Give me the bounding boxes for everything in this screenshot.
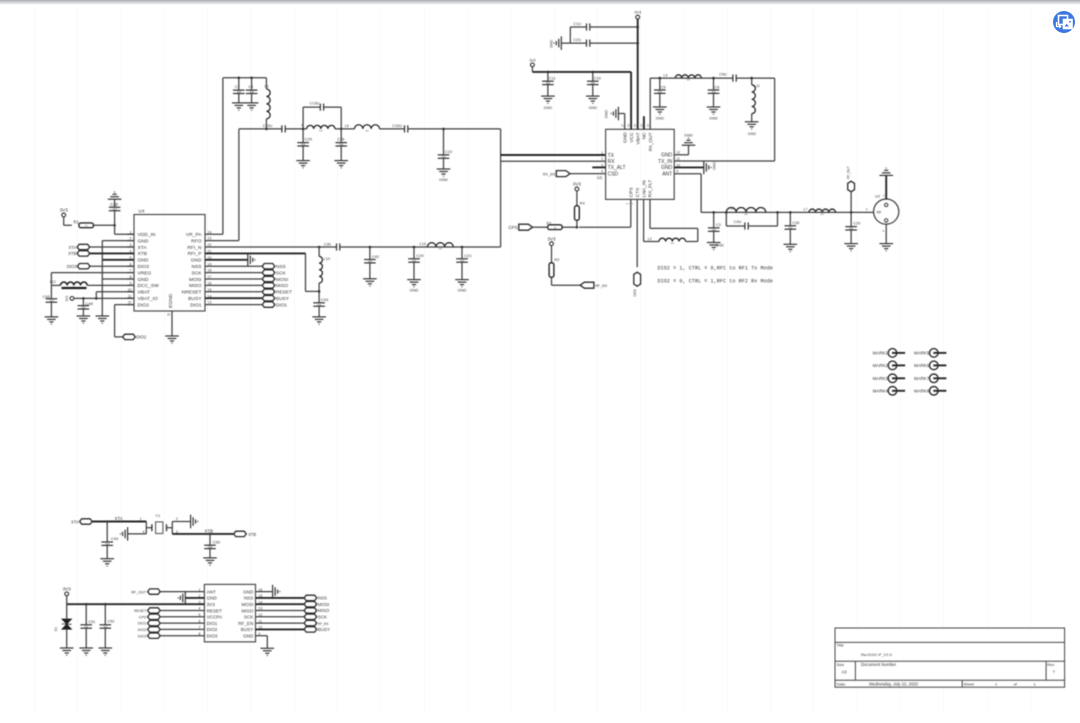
svg-text:MISO: MISO — [242, 608, 254, 613]
wire U1 RX_FLT loop to L2 — [649, 199, 651, 228]
svg-text:3v3: 3v3 — [529, 59, 535, 63]
svg-text:3V3: 3V3 — [65, 295, 69, 301]
svg-text:GND: GND — [243, 589, 254, 594]
svg-text:GND: GND — [550, 40, 554, 48]
svg-text:DIO3: DIO3 — [207, 634, 218, 639]
ground below C46 — [77, 316, 91, 323]
svg-text:C3: C3 — [716, 223, 721, 227]
svg-text:DIO2: DIO2 — [136, 335, 147, 340]
svg-text:RFI_P: RFI_P — [188, 251, 202, 257]
wire U4 pin 19 to port NSS — [205, 265, 262, 267]
fiducial MARK6 — [930, 361, 939, 370]
inductor L5 — [307, 125, 335, 129]
capacitor C1U — [570, 26, 586, 28]
svg-text:VCCPA: VCCPA — [207, 615, 223, 620]
wire U1 CPS pin down — [630, 199, 632, 227]
svg-text:MISO: MISO — [189, 283, 202, 289]
svg-text:4: 4 — [601, 170, 603, 174]
wire 3v3 rail to U1 VCC — [531, 67, 533, 72]
wire DIO3 to header pin 8 — [160, 635, 204, 637]
svg-text:NSS: NSS — [191, 264, 202, 270]
title block text — [837, 643, 1056, 687]
svg-text:DCC_SW: DCC_SW — [138, 283, 160, 289]
port XTA bottom — [80, 519, 93, 524]
port CPS — [519, 224, 533, 230]
svg-text:MARK3: MARK3 — [873, 376, 889, 381]
svg-text:xx: xx — [554, 226, 557, 229]
svg-text:VBAT_IO: VBAT_IO — [138, 296, 158, 302]
fiducial MARK5 — [930, 349, 939, 358]
svg-text:DIO2: DIO2 — [207, 627, 218, 632]
svg-text:DIO3: DIO3 — [138, 634, 147, 638]
wire header pin 14 to port MOSI — [256, 603, 305, 605]
svg-text:3V3: 3V3 — [63, 587, 72, 592]
port RF_OUT vertical — [850, 192, 852, 213]
wire RESET to header pin 4 — [160, 610, 204, 612]
inductor L10 — [318, 247, 320, 256]
svg-text:GND: GND — [439, 177, 448, 182]
svg-text:GND: GND — [709, 116, 718, 120]
svg-text:15: 15 — [633, 124, 637, 128]
capacitor C4U bridge under L1 — [725, 212, 727, 226]
resistor R4 with 3V3 pull-up — [575, 187, 579, 191]
wire L6 to C16U — [380, 128, 405, 130]
blue icon glyph — [1057, 16, 1073, 29]
svg-text:3M: 3M — [49, 299, 54, 303]
IC U1 (RF front-end) body — [606, 129, 675, 199]
port SCK — [262, 270, 275, 275]
port DIO3 bottom — [148, 633, 161, 638]
wire top rail VR_PA node — [223, 77, 267, 79]
svg-text:xxx: xxx — [365, 130, 369, 133]
power flag 3V3 bottom — [65, 592, 69, 596]
svg-text:GND: GND — [458, 287, 467, 292]
svg-text:DIO1: DIO1 — [190, 302, 202, 308]
svg-text:RFI_N: RFI_N — [187, 245, 202, 251]
svg-text:DIO2 = 1, CTRL = 0,RFC to RF1: DIO2 = 1, CTRL = 0,RFC to RF1 Tx Mode — [658, 266, 773, 272]
svg-text:RF_OUT: RF_OUT — [846, 166, 850, 179]
capacitor C43 — [318, 291, 320, 302]
wire VREG to L12 — [51, 272, 134, 274]
capacitor C3 — [713, 212, 715, 228]
svg-text:L1: L1 — [731, 207, 735, 211]
svg-text:GND: GND — [656, 116, 665, 120]
capacitor C29 — [850, 212, 852, 226]
power flag 3V3 at U4 VBAT_IO — [70, 297, 74, 301]
wire header pin 11 to port RF_EN — [256, 622, 305, 624]
svg-text:xxx: xxx — [820, 213, 824, 216]
capacitor C7 — [238, 78, 240, 90]
wire 3V3 to VBAT_IO pin 11 — [74, 297, 134, 299]
svg-text:DIO3: DIO3 — [67, 264, 77, 269]
svg-text:3M: 3M — [317, 303, 322, 307]
svg-text:R3: R3 — [547, 221, 552, 225]
svg-text:RF_EN: RF_EN — [238, 621, 253, 626]
wire C39U to right riser — [340, 246, 501, 248]
svg-text:RFO: RFO — [191, 238, 202, 244]
ground below D1 — [60, 648, 74, 655]
svg-text:3M: 3M — [113, 207, 118, 211]
ground below C3 — [707, 243, 721, 250]
wire C15U to L5 node — [285, 128, 306, 130]
svg-text:C29: C29 — [853, 222, 860, 226]
svg-text:C43: C43 — [321, 297, 329, 302]
port RESET bottom — [148, 608, 161, 613]
svg-text:SCK: SCK — [244, 615, 254, 620]
svg-text:DIO1: DIO1 — [207, 621, 218, 626]
capacitor C13U — [320, 104, 323, 111]
inductor L12 (DCC_SW) — [51, 284, 60, 286]
svg-text:Document Number: Document Number — [861, 662, 897, 667]
port NSS — [262, 264, 275, 269]
wire RFI_P path — [205, 252, 306, 254]
svg-text:XTA: XTA — [68, 245, 76, 250]
svg-text:C16U: C16U — [392, 124, 402, 128]
svg-text:BUSY: BUSY — [318, 627, 330, 632]
port MISO — [262, 283, 275, 288]
svg-text:GND: GND — [712, 162, 716, 170]
ground below C45 — [45, 317, 59, 324]
svg-text:RX_EN: RX_EN — [543, 172, 556, 176]
svg-text:C4U: C4U — [734, 220, 742, 224]
wire to U1 TX pin 1 — [501, 154, 606, 156]
svg-text:1: 1 — [601, 151, 603, 155]
top gradient bar — [0, 0, 1080, 5]
fiducial MARK4 — [888, 387, 897, 396]
svg-text:L11: L11 — [754, 84, 760, 88]
port CPS bottom — [148, 614, 161, 619]
wire RX_EN to CSD — [570, 173, 606, 175]
svg-text:GND: GND — [243, 634, 254, 639]
wire TX riser down to U1 TX — [500, 129, 502, 247]
svg-text:C2U: C2U — [573, 38, 581, 42]
capacitor C52 — [104, 604, 106, 625]
svg-text:GND: GND — [207, 596, 218, 601]
svg-text:C5: C5 — [661, 85, 666, 89]
ground below C29 — [844, 244, 858, 251]
svg-text:C39: C39 — [324, 242, 331, 246]
wire filter rail RFO to C15U — [239, 128, 282, 130]
svg-text:SCK: SCK — [276, 270, 287, 276]
svg-text:RX: RX — [608, 159, 616, 165]
wire to U1 RX pin 2 — [501, 160, 606, 162]
ground below C52 — [99, 648, 113, 655]
svg-text:XTB: XTB — [68, 251, 76, 256]
GND bus wire for U4 pins 2,5,8 — [102, 240, 134, 242]
inductor L7 — [809, 209, 836, 212]
svg-text:RX_FLT: RX_FLT — [648, 180, 654, 198]
svg-text:12: 12 — [676, 151, 680, 155]
svg-text:PA_OUT: PA_OUT — [648, 132, 654, 151]
wire C16U to TX riser — [408, 128, 501, 130]
svg-text:GND: GND — [589, 106, 598, 110]
rotated ground at U4 pin 20 — [205, 259, 248, 261]
port RF_EN right — [304, 620, 317, 625]
svg-text:C20: C20 — [416, 253, 424, 258]
power flag 3V3 at U4 VDD_IN — [62, 213, 66, 217]
svg-text:xxx: xxx — [744, 213, 748, 216]
svg-text:NC: NC — [642, 132, 648, 139]
svg-text:Rev: Rev — [1047, 662, 1054, 667]
svg-text:MOSI: MOSI — [276, 277, 288, 283]
svg-text:11: 11 — [676, 157, 680, 161]
svg-text:RESET: RESET — [276, 290, 292, 296]
port DIO1 bottom — [148, 620, 161, 625]
svg-text:C51: C51 — [88, 620, 95, 624]
capacitor C22 — [443, 129, 445, 155]
title block frame — [835, 628, 1065, 687]
ground below C9 — [245, 103, 259, 110]
header connector body — [204, 584, 255, 642]
wire U1 LNA_IN to L2 — [643, 199, 645, 241]
wire L5 to L6 — [335, 128, 355, 130]
RF connector U2 — [874, 199, 899, 224]
port RF_EN — [580, 282, 594, 288]
wire R3 to CPS port — [533, 226, 548, 228]
svg-text:XTB: XTB — [205, 529, 214, 534]
svg-text:16: 16 — [627, 124, 631, 128]
svg-text:NSS: NSS — [276, 264, 286, 270]
svg-text:Y1: Y1 — [155, 513, 161, 518]
svg-text:C6: C6 — [715, 85, 720, 89]
port DIO3 — [77, 264, 90, 269]
capacitor C38 — [114, 211, 116, 225]
power flag 3V3 at R2 — [550, 242, 554, 246]
svg-text:1: 1 — [866, 207, 868, 211]
svg-text:25: 25 — [167, 313, 171, 317]
port RF_OUT bottom — [148, 589, 161, 594]
wire U4 VBAT pin 10 — [96, 291, 134, 293]
wire U4 pin 15 to port RESET — [205, 291, 262, 293]
svg-text:C45: C45 — [42, 294, 50, 299]
svg-text:L7: L7 — [804, 208, 808, 212]
ground below C42 — [363, 279, 377, 286]
svg-text:NRESET: NRESET — [182, 290, 202, 296]
rotated ground at crystal pin 4 — [128, 533, 147, 535]
svg-text:C22: C22 — [445, 149, 453, 154]
ground above U2 — [885, 175, 887, 199]
svg-text:BUSY: BUSY — [241, 627, 254, 632]
wire PA network right edge to TX_IN — [774, 78, 776, 161]
svg-text:C26: C26 — [337, 137, 345, 142]
ground below U2 — [885, 224, 887, 243]
svg-text:GND: GND — [138, 258, 149, 264]
svg-text:TX_IN: TX_IN — [658, 159, 673, 165]
wire U1 CTX to DIO2 port — [636, 199, 638, 267]
svg-text:DIO2 = 0, CTRL = 1,RFC to RF2: DIO2 = 0, CTRL = 1,RFC to RF2 Rx Mode — [658, 278, 773, 284]
svg-text:9: 9 — [676, 170, 678, 174]
svg-text:GND: GND — [138, 277, 149, 283]
inductor L4 — [675, 75, 701, 78]
ground below C51 — [79, 648, 93, 655]
wire R1 to VDD_IN node — [94, 224, 115, 226]
svg-text:C9U: C9U — [719, 73, 727, 77]
svg-text:Wednesday, July 22, 2020: Wednesday, July 22, 2020 — [869, 682, 919, 687]
svg-text:XTB: XTB — [138, 251, 148, 257]
rotated ground at U1 pin 10 — [674, 166, 704, 168]
U1 TX_ALT stub — [592, 166, 605, 168]
svg-text:DIO3: DIO3 — [138, 264, 150, 270]
svg-text:CPS: CPS — [629, 187, 635, 197]
svg-text:XTB: XTB — [248, 532, 256, 537]
power pin 3v3 left — [531, 63, 535, 67]
fiducial MARK7 — [930, 374, 939, 383]
svg-text:C9: C9 — [248, 85, 253, 89]
svg-text:2: 2 — [176, 517, 178, 521]
capacitor C42 — [369, 247, 371, 260]
fiducial MARK3 — [888, 374, 897, 383]
svg-text:Size: Size — [837, 662, 846, 667]
svg-text:GND: GND — [684, 134, 693, 138]
svg-text:3V3: 3V3 — [634, 10, 642, 15]
wire U4 pin 16 to port MISO — [205, 284, 262, 286]
svg-text:DIO2: DIO2 — [633, 289, 637, 297]
svg-text:xxx: xxx — [671, 242, 675, 245]
svg-text:3M: 3M — [712, 228, 717, 232]
svg-text:Title: Title — [837, 643, 845, 648]
svg-text:NSS: NSS — [244, 596, 253, 601]
U1 top pin labels — [620, 124, 654, 151]
svg-text:13: 13 — [646, 124, 650, 128]
svg-text:SCK: SCK — [191, 270, 202, 276]
wire crystal pin 3 to XTB — [172, 533, 233, 535]
inductor L6 — [355, 125, 380, 129]
wire header pin 15 to port NSS — [256, 597, 305, 599]
svg-text:1: 1 — [883, 193, 885, 197]
wire XTA to crystal — [92, 521, 146, 523]
svg-text:DIO1: DIO1 — [138, 622, 147, 626]
svg-text:RF_OUT: RF_OUT — [131, 590, 146, 594]
svg-text:R4: R4 — [580, 201, 586, 206]
wire joining C1U and C2U — [569, 27, 571, 43]
svg-text:4: 4 — [301, 123, 303, 127]
svg-text:LNA_IN: LNA_IN — [641, 180, 647, 197]
svg-text:MOSI: MOSI — [189, 277, 202, 283]
svg-text:VBAT: VBAT — [138, 290, 150, 296]
ground below C28 — [784, 244, 798, 251]
wire 3V3 rail to header pin 3 — [66, 596, 68, 604]
svg-text:XTA: XTA — [138, 245, 148, 251]
U4 EGND pin wire — [171, 311, 173, 336]
capacitor C45 — [50, 285, 52, 298]
svg-text:C15U: C15U — [263, 124, 273, 128]
svg-text:L6: L6 — [345, 124, 349, 128]
port DIO2 bottom — [148, 627, 161, 632]
svg-text:EGND: EGND — [168, 293, 174, 308]
ground at U4 GND bus — [96, 316, 110, 323]
port XTB — [77, 251, 90, 256]
capacitor C21 — [461, 247, 463, 259]
svg-text:3V3: 3V3 — [573, 182, 582, 187]
wire DIO1 to header pin 6 — [160, 622, 204, 624]
capacitor C11 — [547, 72, 549, 81]
wire XTB port to U4 pin 4 — [90, 252, 134, 254]
ground below C50 — [203, 558, 217, 565]
svg-text:GND: GND — [138, 238, 149, 244]
svg-text:C11: C11 — [549, 77, 556, 81]
svg-text:L13: L13 — [420, 242, 426, 246]
ground below C25 — [296, 161, 310, 168]
power flag 3V3 top — [636, 15, 640, 19]
resistor R1 — [79, 223, 94, 228]
port MISO right — [304, 608, 317, 613]
wire U4 pin 13 to port DIO1 — [205, 304, 262, 306]
svg-text:C25: C25 — [305, 137, 313, 142]
svg-text:C21: C21 — [464, 253, 472, 258]
svg-text:xxx: xxx — [319, 130, 323, 133]
ground below C21 — [455, 280, 469, 287]
svg-text:MOSI: MOSI — [242, 602, 254, 607]
svg-text:Ra-01SC-P_V1.0: Ra-01SC-P_V1.0 — [861, 652, 893, 657]
svg-text:L12: L12 — [50, 280, 56, 284]
svg-text:L10: L10 — [324, 257, 330, 261]
capacitor C2U — [561, 42, 586, 44]
wire U4 pin 18 to port SCK — [205, 272, 262, 274]
svg-text:TX: TX — [608, 153, 615, 159]
inductor L13 — [427, 243, 453, 247]
svg-text:CSD: CSD — [608, 171, 619, 177]
svg-text:2: 2 — [601, 157, 603, 161]
bridge wire with C13U over L5 — [302, 107, 304, 129]
svg-text:C19: C19 — [594, 77, 601, 81]
svg-text:3M: 3M — [412, 259, 417, 263]
svg-text:L2: L2 — [648, 237, 652, 241]
capacitor C25 — [302, 129, 304, 143]
svg-text:U4: U4 — [139, 208, 145, 213]
svg-text:XTA: XTA — [115, 516, 123, 521]
inductor L2 — [659, 238, 686, 241]
svg-text:VCC: VCC — [629, 132, 635, 143]
header pin labels — [198, 588, 262, 639]
svg-text:3V3: 3V3 — [547, 236, 556, 241]
svg-text:C49: C49 — [111, 536, 119, 541]
svg-text:GND: GND — [605, 110, 609, 119]
svg-text:SCK: SCK — [318, 615, 327, 620]
wire DIO3 port to U4 pin 6 — [90, 265, 134, 267]
svg-text:GND: GND — [410, 287, 419, 292]
U4 left pin stub wires — [127, 234, 134, 304]
wire VR_PA pin 24 riser — [205, 233, 223, 235]
svg-text:MOSI: MOSI — [318, 602, 330, 607]
svg-text:1: 1 — [140, 517, 142, 521]
svg-text:GND: GND — [661, 153, 673, 159]
svg-text:xxx: xxx — [439, 248, 443, 251]
svg-text:BUSY: BUSY — [276, 296, 290, 302]
wire L12 to U4 DCC_SW pin 9 — [87, 284, 134, 286]
ground below C20 — [407, 280, 421, 287]
svg-text:MISO: MISO — [318, 608, 330, 613]
ground below C26 — [334, 161, 348, 168]
svg-text:GND: GND — [544, 106, 553, 110]
ground below C6 — [707, 107, 721, 114]
svg-text:C50: C50 — [213, 540, 221, 545]
port SCK right — [304, 614, 317, 619]
fiducial MARK1 — [888, 349, 897, 358]
svg-text:Sheet: Sheet — [964, 682, 975, 687]
port RESET — [262, 289, 275, 294]
svg-text:C7: C7 — [235, 85, 240, 89]
capacitor C5 — [659, 78, 661, 90]
wire XTA port to U4 pin 3 — [90, 246, 134, 248]
svg-text:C13U: C13U — [310, 102, 320, 106]
wire U4 pin 14 to port BUSY — [205, 297, 262, 299]
port BUSY right — [304, 627, 317, 632]
wire CPS to header pin 5 — [160, 616, 204, 618]
svg-text:GND: GND — [661, 165, 673, 171]
svg-text:MARK1: MARK1 — [873, 351, 889, 356]
svg-text:RESET: RESET — [207, 608, 223, 613]
svg-text:xx: xx — [85, 224, 88, 227]
